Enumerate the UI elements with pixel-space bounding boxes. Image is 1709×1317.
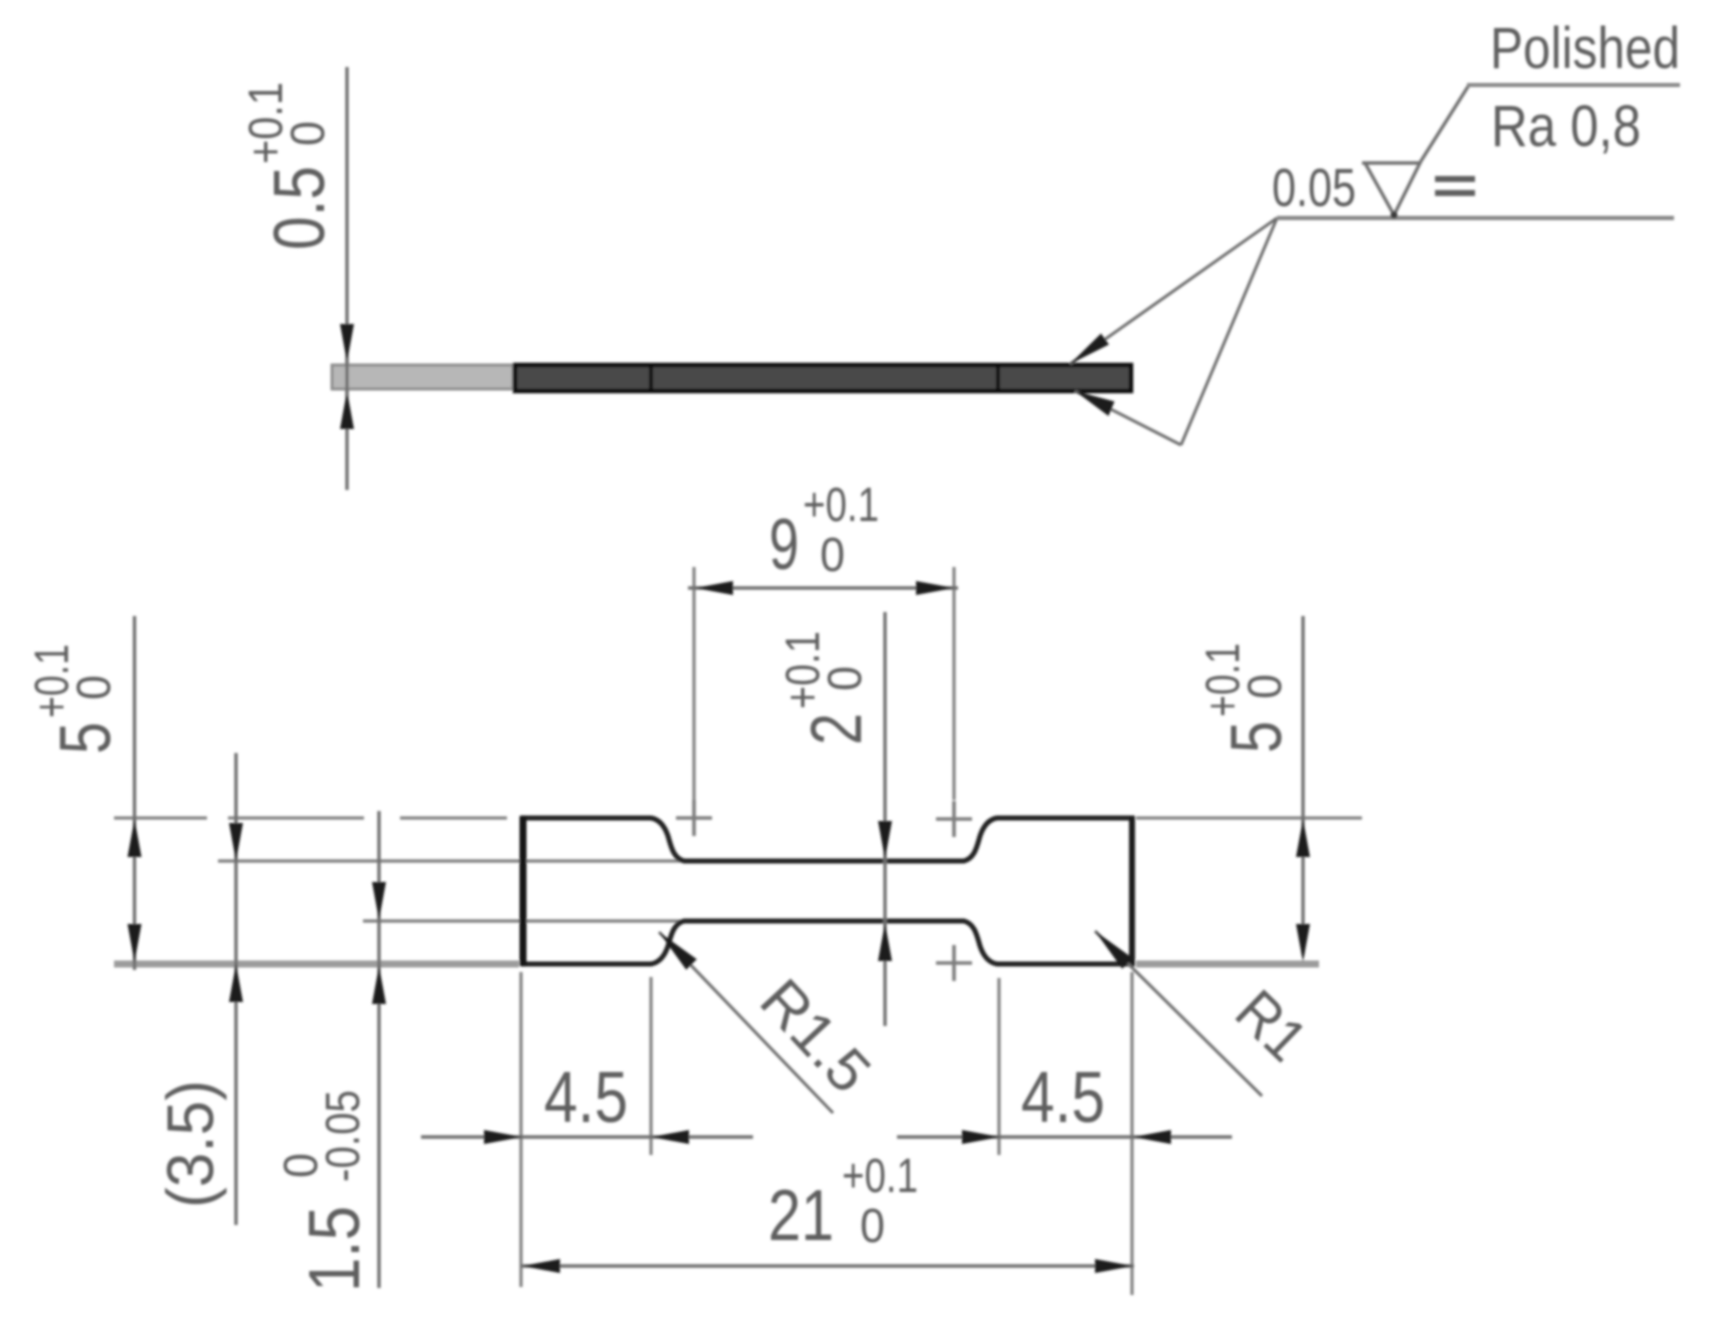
top view: extension line gauge bottom to left	[363, 919, 686, 922]
dimension 4.5 left: left arrow	[484, 1130, 522, 1144]
dimension 1.5: dimension line	[377, 811, 380, 1288]
dimension 4.5 left: extension from transition start	[649, 977, 652, 1155]
surface note: leader to bottom surface	[1075, 391, 1181, 445]
side view: dimension 0.5 bottom arrow	[340, 391, 354, 429]
surface note: leader arrow on bottom surface	[1075, 391, 1115, 416]
dimension 1.5: top arrow	[372, 882, 386, 920]
surface note: leader branch down	[1181, 218, 1277, 445]
top view: radius center mark top-right	[936, 801, 972, 837]
dimension 4.5 left: right arrow	[651, 1130, 689, 1144]
surface note: symbol apex dot	[1391, 212, 1398, 219]
dimension 4.5 right: extension from grip right edge	[1130, 972, 1133, 1295]
dimension 5 right: dimension line	[1301, 616, 1304, 955]
dimension 4.5 right: right arrow	[1133, 1130, 1171, 1144]
dimension 4.5 left: extension from grip left edge	[519, 972, 522, 1287]
surface note: equals sign	[1435, 176, 1475, 182]
dimension 5 left: top arrow	[128, 819, 142, 857]
surface note: overline of Polished	[1467, 83, 1680, 87]
svg-text:+0.1: +0.1	[842, 1150, 918, 1203]
surface note: machining symbol	[1362, 85, 1469, 215]
radius R1.5: leader arrow	[659, 932, 697, 970]
top view: extension line grip bottom right (thick)	[1136, 961, 1319, 968]
svg-text:1.5: 1.5	[295, 1206, 375, 1292]
dimension 5 right: top arrow	[1296, 819, 1310, 857]
dimension 5 right: bottom arrow	[1296, 924, 1310, 962]
top view: extension line grip top right	[1136, 816, 1362, 819]
svg-text:0: 0	[1239, 674, 1292, 699]
svg-text:2: 2	[797, 713, 877, 745]
svg-text:0: 0	[820, 529, 845, 582]
dimension 9: left arrow	[695, 581, 733, 595]
svg-text:0: 0	[282, 121, 335, 146]
top view: dogbone outline	[523, 818, 1132, 964]
dimension 5 left: dimension line	[133, 616, 136, 970]
dimension 5 left: label with tolerance	[26, 644, 126, 754]
svg-text:(3.5): (3.5)	[153, 1080, 227, 1208]
side view: specimen transition tick right	[996, 365, 1000, 391]
radius R1: label	[1223, 977, 1320, 1074]
svg-text:21: 21	[768, 1176, 834, 1256]
dimension 9: right arrow	[916, 581, 954, 595]
svg-text:9: 9	[769, 505, 799, 585]
dimension 2: dimension line	[883, 612, 886, 1026]
dimension 2: label with tolerance	[777, 631, 877, 745]
top view: extension line grip top left (dashed)	[114, 816, 207, 819]
dimension 9: extension line right	[952, 567, 955, 800]
side view: specimen bar (section)	[515, 365, 1131, 391]
svg-text:Polished: Polished	[1490, 16, 1680, 81]
dimension 4.5 right: left arrow	[962, 1130, 1000, 1144]
dimension 2: bottom arrow	[878, 923, 892, 961]
svg-text:-0.05: -0.05	[317, 1090, 370, 1182]
dimension 4.5 right: extension from transition end	[997, 978, 1000, 1155]
radius R1.5: leader line	[659, 932, 833, 1113]
dimension 2: top arrow	[878, 821, 892, 859]
side view: dimension 0.5 dimension line	[345, 67, 348, 490]
surface note: leader to top surface	[1070, 218, 1277, 364]
dimension 9: label with tolerance	[769, 479, 879, 585]
svg-text:4.5: 4.5	[1021, 1058, 1105, 1138]
radius R1: leader line	[1095, 931, 1262, 1096]
dimension 1.5: label with tolerance 0/-0.05	[275, 1090, 375, 1292]
svg-text:5: 5	[1217, 721, 1297, 753]
top view: extension line gauge top to left	[218, 859, 686, 862]
dimension 21: dimension line	[521, 1264, 1134, 1267]
dimension 4.5 right: dimension line	[897, 1135, 1232, 1138]
side view: dimension 0.5 top arrow	[340, 324, 354, 362]
dimension 21: left arrow	[522, 1259, 560, 1273]
radius R1: leader arrow	[1095, 931, 1133, 969]
side view: gray extension stub of specimen	[332, 365, 513, 389]
surface note: main horizontal line	[1277, 216, 1674, 220]
svg-text:5: 5	[46, 722, 126, 754]
dimension (3.5): top arrow	[229, 823, 243, 861]
top view: right edge emphasis	[1129, 816, 1135, 966]
dimension 5 right: label with tolerance	[1197, 643, 1297, 753]
side view: specimen transition tick left	[649, 365, 653, 391]
dimension 9: extension line left	[692, 567, 695, 800]
surface note: leader arrow on top surface	[1070, 334, 1109, 365]
side view: dimension line crossing the stub	[345, 358, 348, 396]
svg-text:0.05: 0.05	[1272, 158, 1356, 218]
dimension (3.5): label	[153, 1080, 227, 1208]
dimension (3.5): dimension line	[234, 753, 237, 1225]
radius R1.5: label	[747, 966, 883, 1105]
dimension 1.5: bottom arrow	[372, 966, 386, 1004]
svg-text:0: 0	[860, 1200, 885, 1253]
top view: left edge emphasis	[520, 816, 527, 966]
svg-text:0: 0	[68, 675, 121, 700]
svg-text:4.5: 4.5	[544, 1058, 628, 1138]
svg-text:0.5: 0.5	[260, 166, 340, 250]
top view: radius center mark top-left	[676, 800, 712, 836]
dimension 21: label with tolerance	[768, 1150, 918, 1256]
top view: radius center mark bottom-right	[936, 945, 972, 981]
dimension 21: right arrow	[1095, 1259, 1133, 1273]
svg-text:0: 0	[819, 666, 872, 691]
svg-text:+0.1: +0.1	[803, 479, 879, 532]
dimension 4.5 left: dimension line	[421, 1135, 753, 1138]
side view: dimension 0.5 label with tolerance +0.1/0	[240, 82, 340, 250]
top view: extension line grip bottom left (thick)	[114, 961, 519, 968]
dimension 5 left: bottom arrow	[128, 924, 142, 962]
svg-text:Ra 0,8: Ra 0,8	[1491, 94, 1641, 159]
dimension 9: dimension line	[688, 586, 958, 589]
dimension (3.5): bottom arrow	[229, 964, 243, 1002]
